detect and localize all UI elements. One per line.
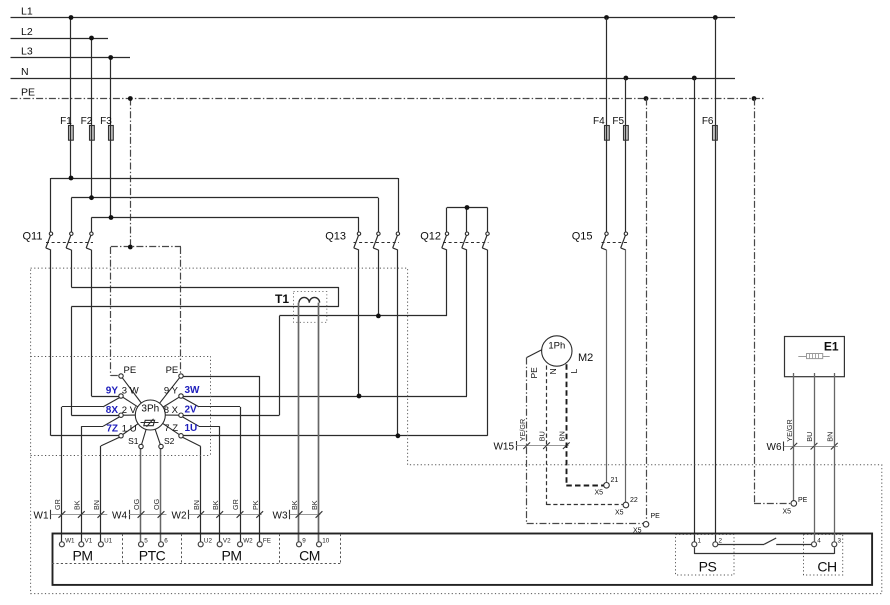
svg-text:W2: W2: [172, 510, 187, 521]
svg-text:E1: E1: [824, 340, 839, 354]
svg-text:1U: 1U: [185, 423, 198, 434]
svg-text:BK: BK: [73, 500, 82, 510]
svg-text:2: 2: [719, 537, 723, 544]
svg-text:1Ph: 1Ph: [548, 341, 565, 352]
svg-text:22: 22: [630, 497, 638, 504]
svg-text:PM: PM: [73, 548, 93, 564]
svg-text:9: 9: [302, 537, 306, 544]
svg-text:PE: PE: [124, 365, 137, 376]
svg-text:OG: OG: [152, 498, 161, 510]
svg-text:BK: BK: [310, 500, 319, 510]
svg-text:9Y: 9Y: [106, 386, 119, 397]
svg-text:W15: W15: [493, 442, 514, 453]
svg-text:Q12: Q12: [420, 230, 441, 242]
svg-text:Q13: Q13: [325, 230, 346, 242]
svg-text:W2: W2: [243, 537, 253, 544]
svg-text:L1: L1: [21, 5, 33, 17]
svg-text:PS: PS: [699, 559, 717, 575]
svg-text:8X: 8X: [106, 405, 119, 416]
svg-text:FE: FE: [263, 537, 271, 544]
svg-text:BN: BN: [558, 431, 567, 441]
svg-text:PE: PE: [651, 513, 661, 520]
svg-text:PK: PK: [251, 500, 260, 510]
svg-text:3 W: 3 W: [122, 386, 139, 397]
svg-text:W1: W1: [65, 537, 75, 544]
svg-text:BN: BN: [92, 500, 101, 510]
svg-text:2 V: 2 V: [122, 405, 137, 416]
svg-text:S2: S2: [164, 436, 175, 446]
svg-text:PE: PE: [798, 497, 808, 504]
svg-text:F3: F3: [100, 116, 112, 127]
svg-text:X5: X5: [782, 509, 791, 516]
svg-text:L2: L2: [21, 26, 33, 38]
svg-text:Q15: Q15: [572, 230, 593, 242]
svg-text:8 X: 8 X: [164, 405, 179, 416]
svg-text:X5: X5: [615, 510, 624, 517]
svg-text:PE: PE: [21, 86, 35, 98]
svg-text:CM: CM: [299, 548, 320, 564]
svg-text:V2: V2: [223, 537, 231, 544]
svg-text:CH: CH: [817, 559, 836, 575]
svg-text:6: 6: [164, 537, 168, 544]
svg-text:L: L: [569, 369, 579, 374]
svg-text:N: N: [548, 368, 558, 374]
svg-text:M2: M2: [578, 352, 593, 364]
svg-text:OG: OG: [132, 498, 141, 510]
svg-text:F1: F1: [60, 116, 72, 127]
svg-text:U2: U2: [204, 537, 213, 544]
svg-text:V1: V1: [85, 537, 93, 544]
svg-text:PE: PE: [529, 367, 539, 379]
svg-text:X5: X5: [633, 528, 642, 535]
svg-text:X5: X5: [594, 490, 603, 497]
svg-text:F2: F2: [81, 116, 93, 127]
svg-text:W1: W1: [34, 510, 49, 521]
svg-text:W6: W6: [767, 442, 782, 453]
svg-text:F6: F6: [702, 116, 714, 127]
svg-text:T1: T1: [275, 292, 289, 306]
svg-text:2V: 2V: [185, 404, 198, 415]
svg-text:BN: BN: [826, 432, 835, 442]
svg-text:Q11: Q11: [23, 230, 43, 242]
svg-text:1 U: 1 U: [122, 424, 137, 435]
svg-text:5: 5: [144, 537, 148, 544]
svg-text:3W: 3W: [185, 385, 201, 396]
svg-text:N: N: [21, 66, 29, 78]
svg-text:BU: BU: [538, 431, 547, 441]
svg-text:21: 21: [611, 477, 619, 484]
svg-text:BN: BN: [192, 500, 201, 510]
svg-text:S1: S1: [128, 436, 139, 446]
svg-text:GR: GR: [53, 499, 62, 510]
svg-text:1: 1: [698, 537, 702, 544]
svg-text:GR: GR: [231, 499, 240, 510]
svg-text:BK: BK: [211, 500, 220, 510]
svg-text:YE/GR: YE/GR: [785, 419, 794, 441]
svg-text:L3: L3: [21, 45, 33, 57]
svg-text:YE/GR: YE/GR: [518, 419, 527, 441]
svg-text:10: 10: [322, 537, 330, 544]
svg-text:F4: F4: [593, 116, 605, 127]
svg-text:U1: U1: [104, 537, 113, 544]
svg-text:W4: W4: [112, 510, 127, 521]
svg-text:W3: W3: [273, 510, 288, 521]
svg-text:3Ph: 3Ph: [141, 404, 159, 415]
svg-text:BU: BU: [805, 432, 814, 442]
svg-text:4: 4: [817, 537, 821, 544]
svg-text:3: 3: [838, 537, 842, 544]
svg-text:PTC: PTC: [139, 548, 166, 564]
svg-text:BK: BK: [290, 500, 299, 510]
svg-text:7 Z: 7 Z: [164, 423, 178, 434]
svg-text:F5: F5: [612, 116, 624, 127]
svg-text:PM: PM: [222, 548, 242, 564]
svg-text:7Z: 7Z: [106, 424, 118, 435]
svg-text:9 Y: 9 Y: [164, 386, 179, 397]
svg-text:PE: PE: [166, 365, 179, 376]
